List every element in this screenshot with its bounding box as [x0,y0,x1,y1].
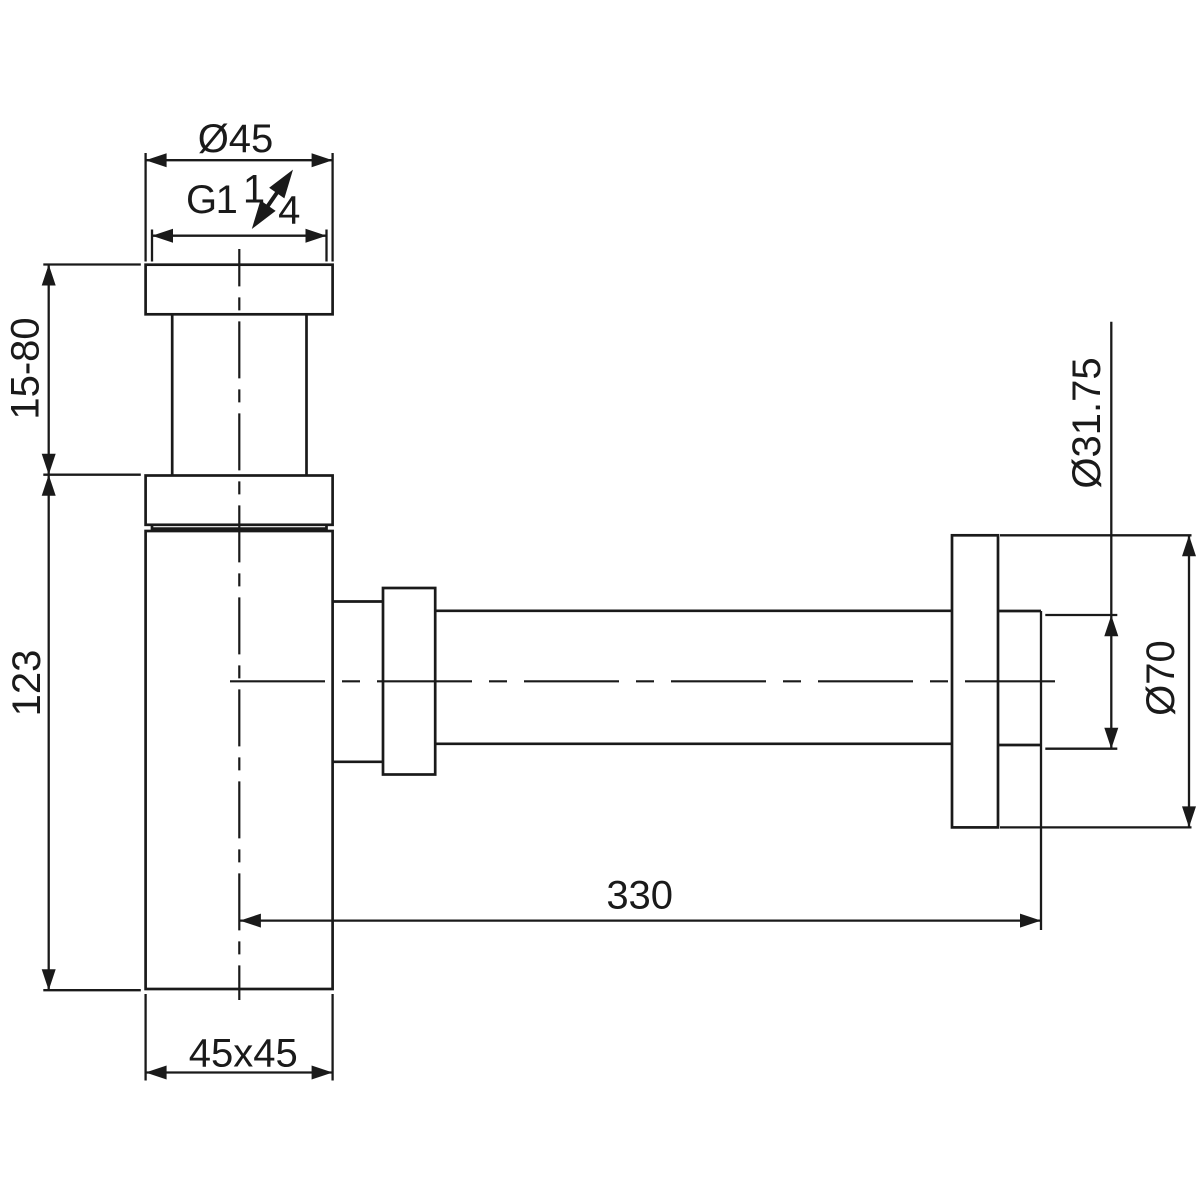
arrow G1 left [152,229,173,243]
wall sleeve bottom [998,744,1041,747]
dim G1 extension right [325,230,327,262]
dim 45x45 line [146,1071,333,1073]
dim O31.75 leader line [1110,322,1112,749]
arrow O31.75 up [1104,615,1118,636]
outlet stub bottom [333,760,383,763]
horizontal centerline [230,680,1055,682]
arrow G1 right [306,229,327,243]
arrow 45x45 right [312,1066,333,1080]
dim O70 line [1188,535,1190,827]
svg-text:Ø31.75: Ø31.75 [1065,357,1109,488]
svg-text:G1: G1 [186,178,237,222]
arrow 15-80 down [42,454,56,475]
top slip nut flange [146,265,333,315]
dim 330 line [240,919,1041,921]
svg-text:15-80: 15-80 [4,317,48,419]
outlet stub top [333,600,383,603]
arrow 123 up [42,475,56,496]
dim 15-80 extension bottom [43,474,141,476]
arrow O45 right [312,153,333,167]
dim O70 extension top [1000,534,1192,536]
arrow 45x45 left [146,1066,167,1080]
arrow O70 up [1182,535,1196,556]
gasket joint line [152,525,327,529]
arrow 15-80 up [42,265,56,286]
wall flange [952,535,998,827]
trap body [146,531,333,989]
horizontal pipe bottom [435,742,952,745]
outlet nut [383,588,435,775]
arrow O31.75 down [1104,728,1118,749]
body cap flange [146,476,333,525]
dim O45 extension left [144,153,146,262]
dim O70 extension bottom [1000,826,1192,828]
dim 123 extension bottom [43,989,141,991]
tailpipe right wall [305,314,308,475]
svg-text:330: 330 [606,874,673,918]
dim 15-80 line [48,265,50,475]
dim 45x45 extension left [144,994,146,1081]
dim O31.75 extension bottom [1045,748,1117,750]
horizontal pipe top [435,609,952,612]
wall sleeve top [998,610,1041,613]
dim G1 line [152,235,327,237]
vertical centerline [238,249,240,1000]
tailpipe left wall [171,314,174,475]
arrow O70 down [1182,806,1196,827]
arrow 330 left [240,914,261,928]
svg-text:45x45: 45x45 [189,1032,298,1076]
dim O45 extension right [331,153,333,262]
dim 15-80 extension top [43,263,141,265]
svg-text:Ø45: Ø45 [198,117,274,161]
fraction arrow between 1 and 4 [256,175,290,224]
dim 45x45 extension right [331,994,333,1081]
dim 330 extension right / sleeve edge [1040,611,1042,930]
dim O45 line [146,159,333,161]
arrow 123 down [42,969,56,990]
svg-text:Ø70: Ø70 [1139,640,1183,716]
svg-text:123: 123 [5,650,49,717]
arrow O45 left [146,153,167,167]
dim O31.75 extension top [1045,614,1117,616]
dim 123 line [48,475,50,991]
dim G1 extension left [151,230,153,262]
arrow 330 right [1020,914,1041,928]
